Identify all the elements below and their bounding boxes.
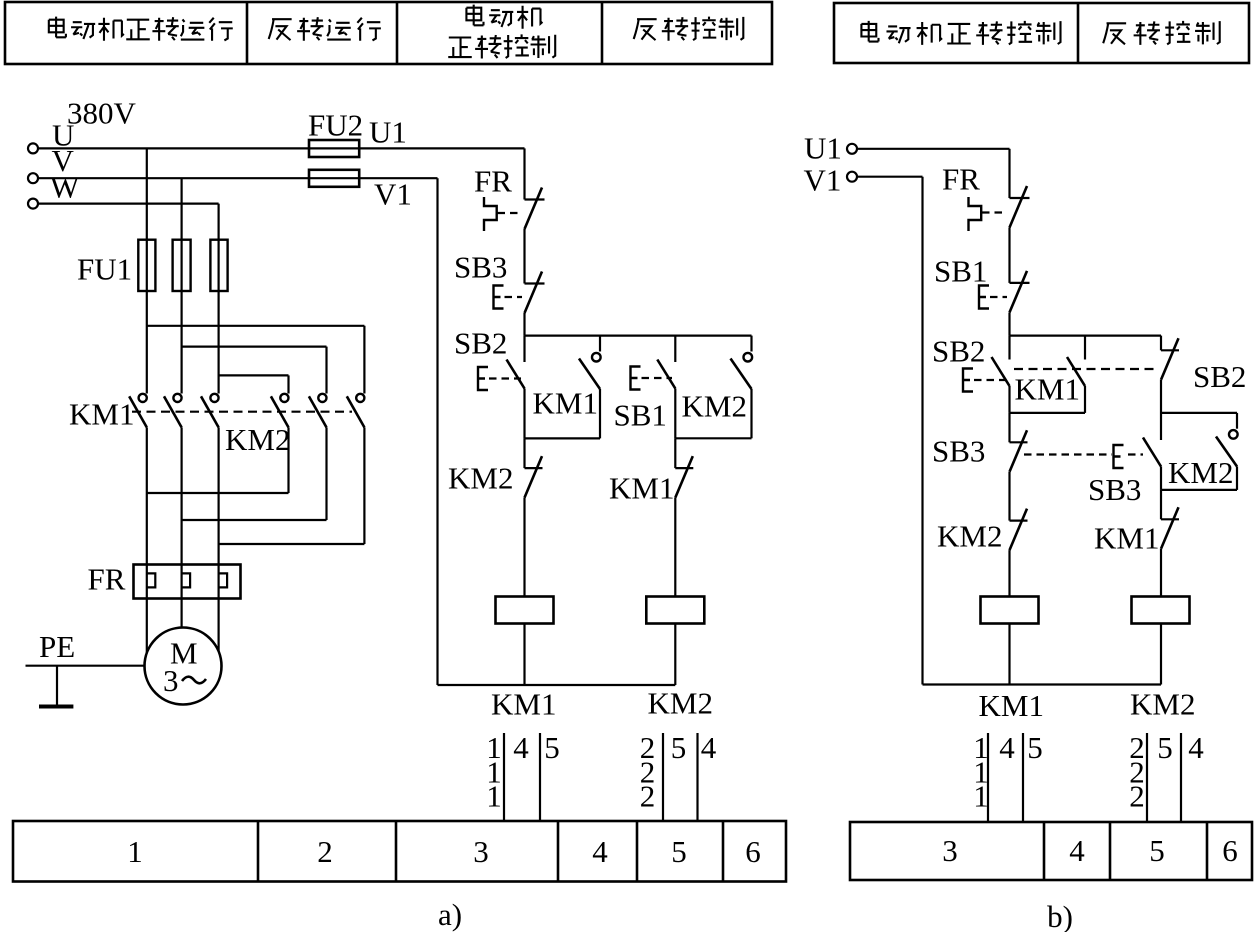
svg-text:1: 1 bbox=[486, 779, 502, 814]
svg-text:b): b) bbox=[1047, 899, 1073, 932]
svg-text:KM2: KM2 bbox=[1130, 687, 1195, 722]
svg-text:2: 2 bbox=[1129, 779, 1145, 814]
svg-text:SB1: SB1 bbox=[934, 254, 987, 289]
svg-text:FR: FR bbox=[88, 562, 126, 597]
svg-text:SB3: SB3 bbox=[454, 250, 507, 285]
svg-text:V1: V1 bbox=[804, 163, 842, 198]
svg-text:KM1: KM1 bbox=[1015, 372, 1080, 407]
svg-text:4: 4 bbox=[592, 834, 608, 869]
svg-text:5: 5 bbox=[671, 834, 687, 869]
svg-text:a): a) bbox=[438, 897, 462, 932]
svg-text:V1: V1 bbox=[374, 177, 412, 212]
svg-text:KM2: KM2 bbox=[937, 519, 1002, 554]
svg-text:6: 6 bbox=[745, 834, 761, 869]
svg-text:1: 1 bbox=[973, 779, 989, 814]
svg-text:SB2: SB2 bbox=[454, 326, 507, 361]
svg-text:SB3: SB3 bbox=[1088, 472, 1141, 507]
svg-text:SB2: SB2 bbox=[932, 334, 985, 369]
svg-text:KM1: KM1 bbox=[1094, 521, 1159, 556]
svg-text:2: 2 bbox=[640, 779, 656, 814]
svg-text:KM1: KM1 bbox=[979, 688, 1044, 723]
svg-text:KM2: KM2 bbox=[648, 686, 713, 721]
svg-text:KM1: KM1 bbox=[491, 687, 556, 722]
svg-text:KM2: KM2 bbox=[448, 461, 513, 496]
svg-text:4: 4 bbox=[1188, 730, 1204, 765]
svg-text:2: 2 bbox=[317, 834, 333, 869]
svg-text:4: 4 bbox=[701, 730, 717, 765]
svg-text:FU1: FU1 bbox=[77, 252, 132, 287]
svg-text:PE: PE bbox=[39, 629, 75, 664]
svg-text:KM1: KM1 bbox=[69, 397, 134, 432]
svg-text:3: 3 bbox=[163, 663, 179, 698]
svg-text:4: 4 bbox=[999, 730, 1015, 765]
svg-text:3: 3 bbox=[942, 833, 958, 868]
svg-text:6: 6 bbox=[1222, 833, 1238, 868]
svg-text:FR: FR bbox=[942, 162, 980, 197]
svg-text:KM1: KM1 bbox=[609, 471, 674, 506]
svg-text:W: W bbox=[50, 170, 80, 205]
svg-text:380V: 380V bbox=[67, 96, 137, 131]
svg-text:5: 5 bbox=[1149, 833, 1165, 868]
svg-text:SB3: SB3 bbox=[932, 434, 985, 469]
svg-text:FR: FR bbox=[474, 164, 512, 199]
svg-text:KM1: KM1 bbox=[533, 386, 598, 421]
svg-text:5: 5 bbox=[1157, 730, 1173, 765]
svg-text:5: 5 bbox=[671, 730, 687, 765]
svg-text:KM2: KM2 bbox=[1168, 455, 1233, 490]
svg-text:SB2: SB2 bbox=[1193, 359, 1246, 394]
svg-text:FU2: FU2 bbox=[308, 108, 363, 143]
svg-text:KM2: KM2 bbox=[682, 389, 747, 424]
svg-text:5: 5 bbox=[544, 730, 560, 765]
svg-text:4: 4 bbox=[513, 730, 529, 765]
svg-text:4: 4 bbox=[1069, 833, 1085, 868]
svg-text:U1: U1 bbox=[369, 115, 407, 150]
svg-text:SB1: SB1 bbox=[614, 398, 667, 433]
svg-text:KM2: KM2 bbox=[225, 422, 290, 457]
svg-text:3: 3 bbox=[473, 834, 489, 869]
svg-text:U1: U1 bbox=[804, 131, 842, 166]
svg-text:1: 1 bbox=[127, 834, 143, 869]
svg-text:5: 5 bbox=[1027, 730, 1043, 765]
